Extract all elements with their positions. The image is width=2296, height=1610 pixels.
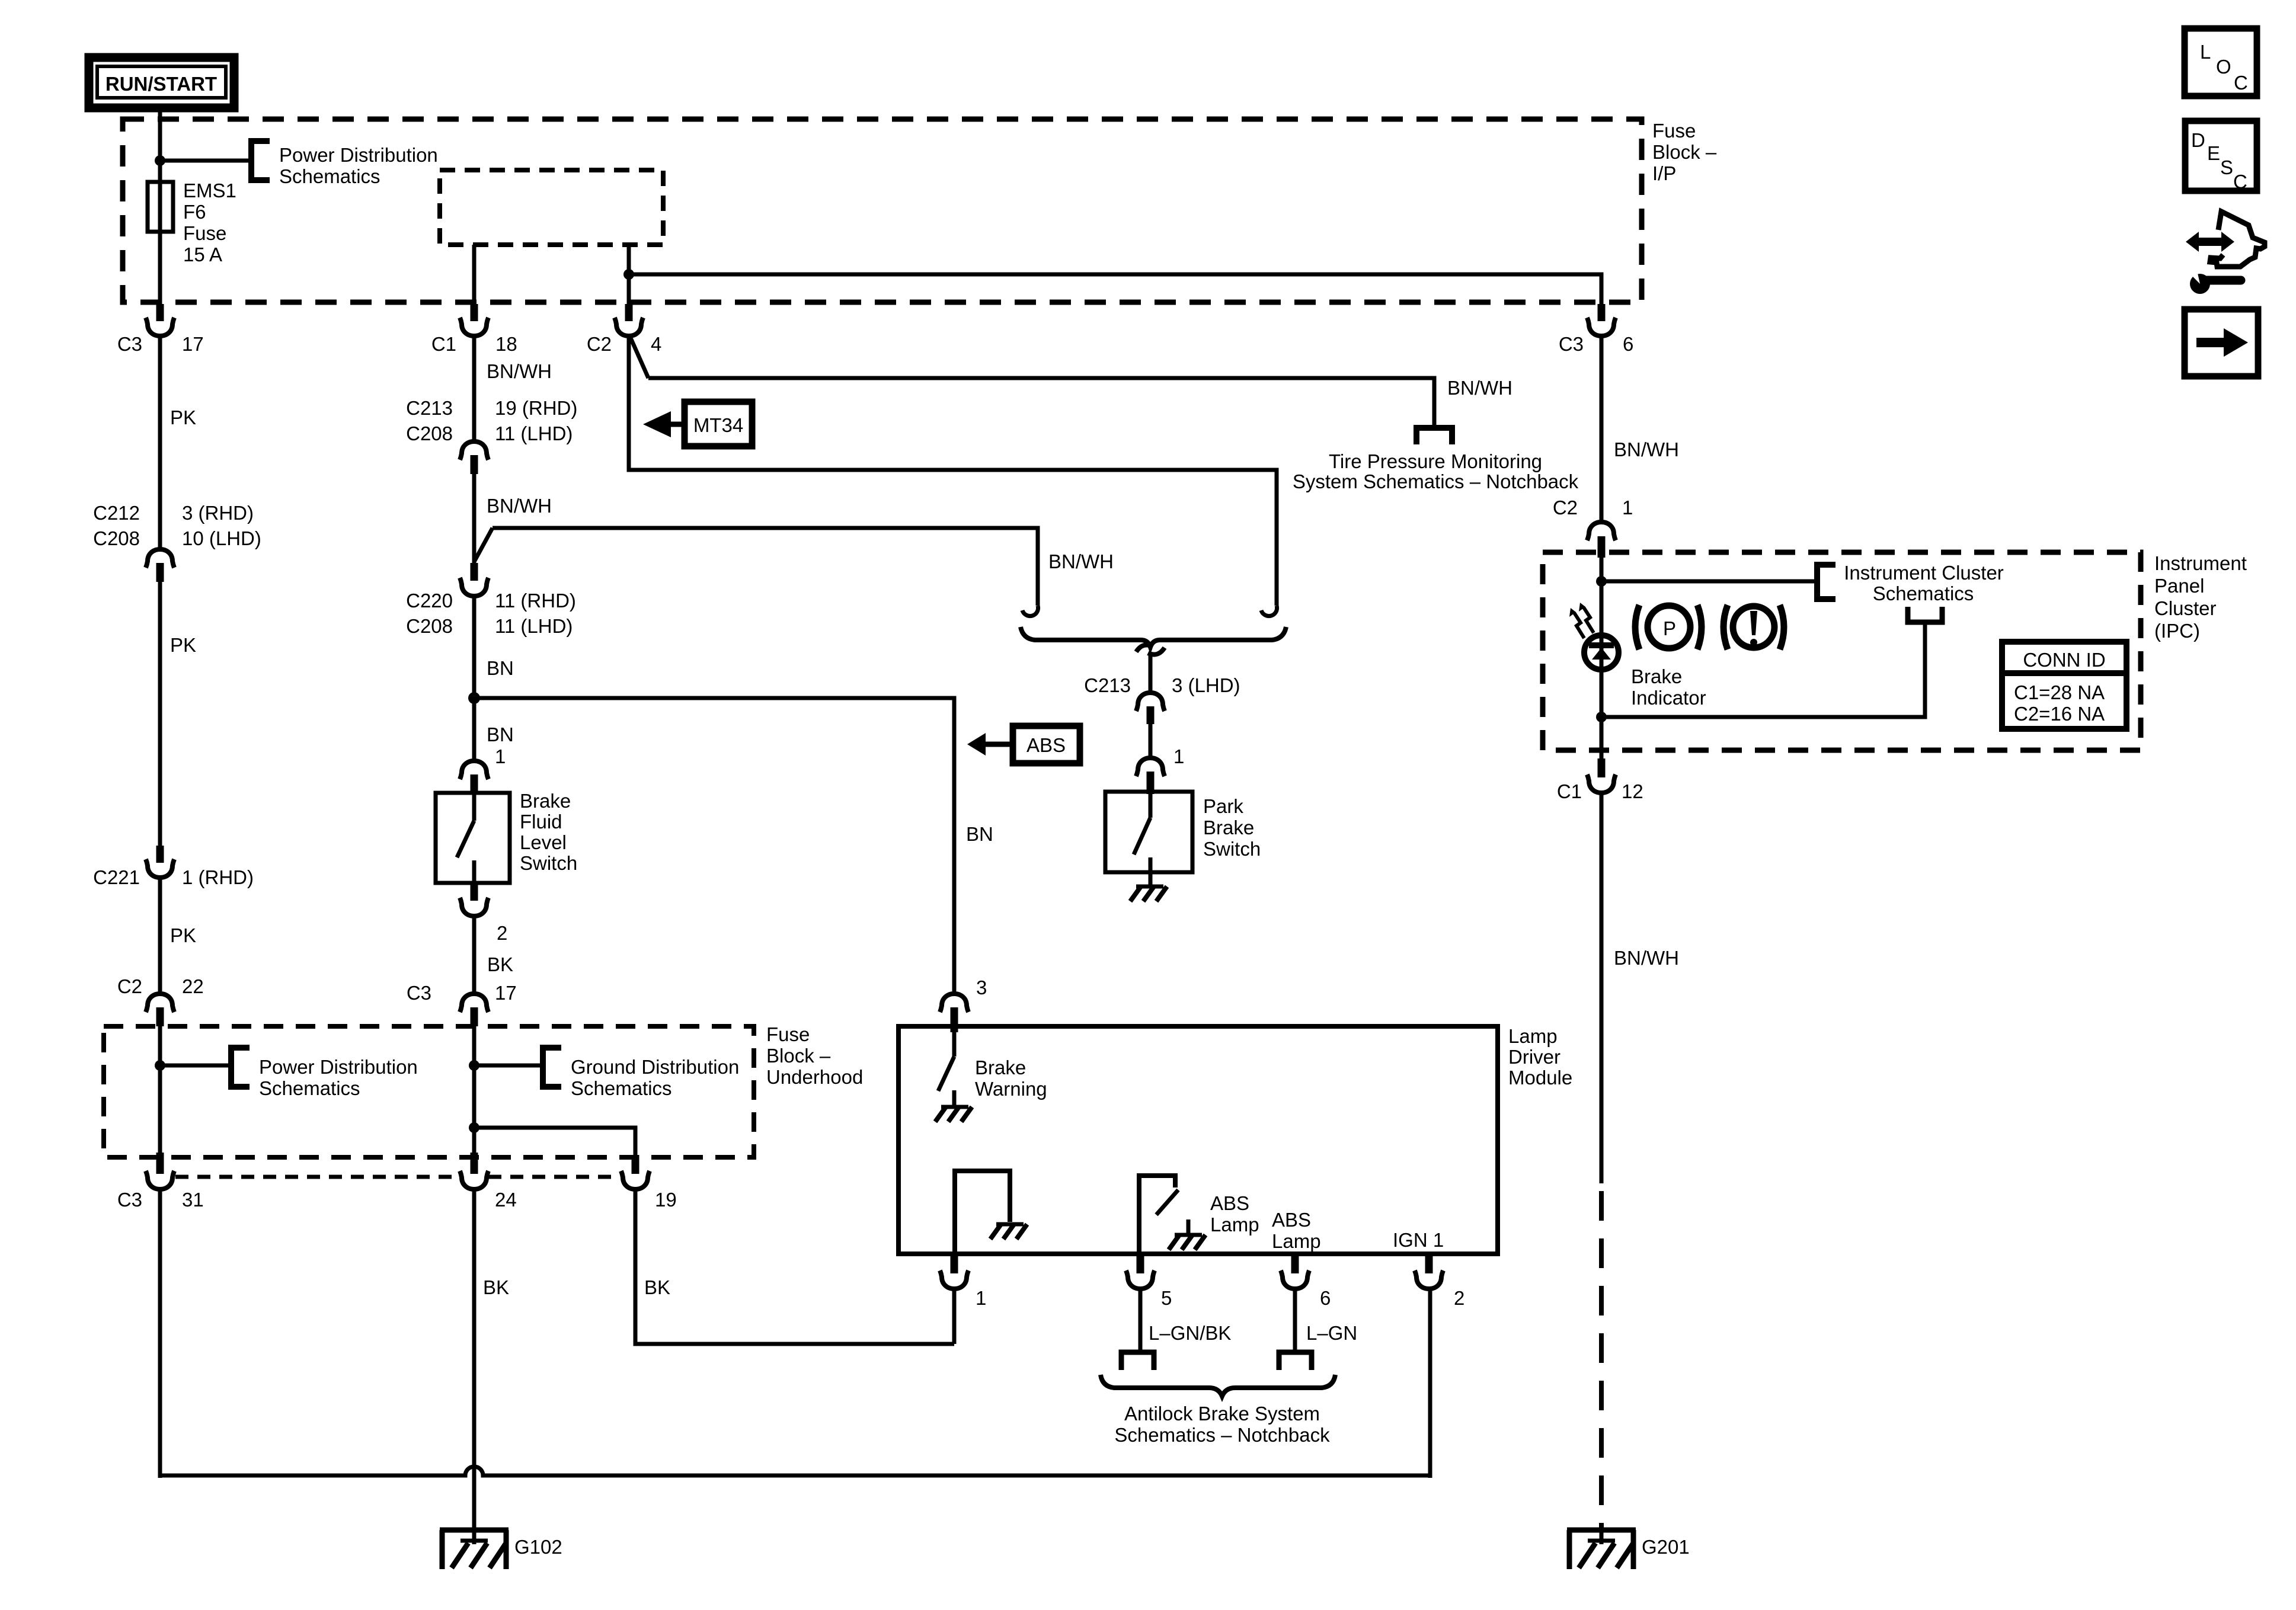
svg-text:Schematics – Notchback: Schematics – Notchback — [1114, 1424, 1330, 1446]
svg-text:Driver: Driver — [1508, 1046, 1560, 1068]
node: junction at power distribution tap — [155, 155, 165, 166]
label: Brake Fluid Level Switch — [520, 790, 577, 874]
svg-text:G102: G102 — [514, 1536, 562, 1558]
svg-text:5: 5 — [1161, 1287, 1172, 1309]
svg-text:E: E — [2207, 142, 2220, 164]
svg-text:MT34: MT34 — [693, 414, 743, 436]
svg-text:24: 24 — [495, 1189, 517, 1211]
svg-text:PK: PK — [170, 406, 196, 428]
wire PK: C221 down to C2-22 — [158, 877, 162, 993]
svg-text:Brake: Brake — [1631, 665, 1682, 687]
brake warning telltale icon ((!)) — [1723, 605, 1784, 649]
svg-text:1: 1 — [1173, 745, 1184, 767]
svg-text:Lamp: Lamp — [1508, 1025, 1558, 1047]
connector C3 pin 24 — [460, 1153, 517, 1211]
svg-text:C213: C213 — [406, 397, 453, 419]
svg-text:S: S — [2220, 156, 2233, 178]
Park Brake Switch box — [1105, 792, 1192, 872]
svg-text:6: 6 — [1320, 1287, 1331, 1309]
svg-text:19: 19 — [655, 1189, 677, 1211]
label: Power Distribution Schematics (underhood) — [259, 1056, 418, 1099]
wire: C2-4 slant branch to BN/WH feed — [630, 337, 648, 378]
svg-text:(IPC): (IPC) — [2154, 620, 2200, 642]
svg-text:C212: C212 — [93, 502, 140, 524]
svg-text:L–GN/BK: L–GN/BK — [1149, 1322, 1231, 1344]
wire: park brake switch to chassis ground — [1149, 872, 1153, 885]
svg-text:3: 3 — [976, 977, 987, 998]
wire: C213 down to C220 with branch slant — [472, 474, 477, 563]
label: ABS Lamp (pin 6) — [1272, 1209, 1321, 1252]
wire PK: C212 down to C221 — [158, 582, 162, 846]
label: Brake Warning — [975, 1057, 1047, 1100]
svg-text:Fuse: Fuse — [1652, 120, 1696, 142]
svg-text:Fluid: Fluid — [520, 811, 562, 833]
svg-text:Lamp: Lamp — [1272, 1230, 1321, 1252]
connector C3 pin 31 — [117, 1153, 204, 1211]
svg-text:L: L — [2200, 41, 2211, 63]
RUN/START switch box — [89, 57, 234, 108]
svg-text:10 (LHD): 10 (LHD) — [182, 527, 261, 549]
svg-text:Level: Level — [520, 831, 567, 853]
wire: BN branch junction to brake warning pin 3 — [474, 698, 954, 993]
svg-text:15 A: 15 A — [183, 244, 222, 265]
svg-text:Switch: Switch — [1203, 838, 1261, 860]
svg-text:Schematics: Schematics — [571, 1077, 672, 1099]
label: Tire Pressure Monitoring System Schematics - Notchback — [1293, 450, 1579, 492]
wire: C1-12 down (solid) — [1600, 792, 1604, 1183]
svg-text:Fuse: Fuse — [766, 1023, 810, 1045]
wire: inside underhood box down to C3-24 — [472, 1026, 477, 1153]
svg-text:C: C — [2233, 171, 2247, 193]
chassis ground (park brake switch) — [1130, 886, 1167, 901]
svg-text:11 (RHD): 11 (RHD) — [495, 590, 576, 612]
svg-text:PK: PK — [170, 924, 196, 946]
svg-text:C220: C220 — [406, 590, 453, 612]
switch blade inside BFLS — [457, 795, 474, 883]
svg-text:C1: C1 — [1557, 780, 1582, 802]
svg-text:3 (RHD): 3 (RHD) — [182, 502, 254, 524]
connector: LDM pin 2 (IGN 1) — [1415, 1254, 1464, 1309]
wire: junction to bracket — [1601, 580, 1816, 584]
svg-text:4: 4 — [651, 333, 661, 355]
wire: pin 6 down to ABS fork — [1293, 1288, 1297, 1350]
label: EMS1 F6 Fuse 15 A — [183, 180, 236, 265]
wire: C2-4 straight down then right to brace right drop — [629, 335, 1277, 606]
svg-text:RUN/START: RUN/START — [105, 73, 217, 95]
connector: LDM pin 5 — [1126, 1254, 1172, 1309]
chassis ground (brake warning) — [935, 1107, 972, 1122]
svg-text:BK: BK — [644, 1276, 670, 1298]
wire: brace output down to C213 — [1149, 654, 1153, 692]
svg-text:C2=16 NA: C2=16 NA — [2014, 703, 2105, 725]
connector: park brake switch pin 1 — [1136, 758, 1165, 794]
svg-text:17: 17 — [182, 333, 204, 355]
svg-text:Cluster: Cluster — [2154, 597, 2217, 619]
connector: BFLS pin 2 — [460, 883, 507, 944]
svg-text:BK: BK — [487, 953, 513, 975]
harness fork (pin 6) — [1279, 1352, 1312, 1370]
wire: RUN/START down to fuse — [158, 108, 162, 304]
svg-text:Block –: Block – — [1652, 141, 1717, 163]
svg-text:C2: C2 — [1553, 497, 1578, 518]
svg-text:1: 1 — [495, 745, 506, 767]
svg-text:Switch: Switch — [520, 852, 577, 874]
icon: DESC legend box — [2185, 121, 2257, 193]
wire: C3-6 down to C2-1 — [1600, 335, 1604, 523]
connector C3 pin 17 (underhood box) — [407, 982, 517, 1026]
svg-text:C1: C1 — [431, 333, 456, 355]
connector face dashed line (fine dashes) — [175, 1175, 619, 1179]
svg-text:C3: C3 — [1559, 333, 1584, 355]
wire: branch to connector 19 — [474, 1128, 635, 1155]
chassis ground (LDM internal) — [990, 1224, 1027, 1239]
wire: tap to power distribution bracket — [160, 159, 249, 163]
label: Ground Distribution Schematics — [571, 1056, 739, 1099]
connector C2 pin 22 — [117, 975, 204, 1026]
svg-text:BN/WH: BN/WH — [487, 495, 552, 517]
svg-text:CONN ID: CONN ID — [2023, 649, 2105, 671]
wire: BN/WH horizontal to TPM drop — [648, 378, 1434, 428]
wire: BFLS pin2 down to C3-17 underhood — [472, 916, 477, 993]
svg-text:19 (RHD): 19 (RHD) — [495, 397, 577, 419]
svg-text:C2: C2 — [117, 975, 142, 997]
svg-text:Ground Distribution: Ground Distribution — [571, 1056, 739, 1078]
off-page bracket: Ground Distribution — [543, 1048, 561, 1087]
connector C213 pin 3 (LHD) — [1084, 674, 1240, 724]
svg-text:BN/WH: BN/WH — [1048, 550, 1114, 572]
connector C2 pin 1 (IPC) — [1553, 497, 1633, 558]
inline connector (interlocked hooks) at brace output — [1136, 645, 1165, 654]
connector C3 pin 17 (fuse block output) — [117, 304, 204, 355]
wire: tap to ground distribution bracket — [474, 1064, 542, 1068]
Instrument Panel Cluster dashed box — [1543, 552, 2141, 750]
connector C213/C208 pin 19(RHD)/11(LHD) — [406, 397, 577, 474]
svg-text:1: 1 — [1622, 497, 1633, 518]
svg-text:Instrument: Instrument — [2154, 552, 2247, 574]
node: junction to connector 19 branch — [469, 1122, 479, 1133]
svg-text:2: 2 — [1454, 1287, 1464, 1309]
svg-text:Warning: Warning — [975, 1078, 1047, 1100]
svg-text:Brake: Brake — [520, 790, 571, 812]
svg-text:O: O — [2216, 56, 2231, 78]
connector C212/C208 pin 3(RHD)/10(LHD) — [93, 502, 261, 582]
svg-text:C208: C208 — [406, 615, 453, 637]
svg-text:BK: BK — [483, 1276, 509, 1298]
relay contact to pin 1 inside LDM — [955, 1171, 1010, 1254]
CONN ID table — [2002, 642, 2126, 729]
connector pin 19 (underhood) — [621, 1155, 677, 1211]
svg-text:6: 6 — [1623, 333, 1633, 355]
wire: C1-18 down to C213/C208 — [472, 335, 477, 441]
svg-text:Park: Park — [1203, 795, 1243, 817]
svg-text:Schematics: Schematics — [279, 165, 380, 187]
wire: C2-1 into IPC — [1600, 558, 1604, 639]
connector: LDM pin 6 — [1281, 1254, 1331, 1309]
svg-text:C3: C3 — [407, 982, 431, 1004]
svg-text:31: 31 — [182, 1189, 204, 1211]
svg-text:P: P — [1663, 617, 1676, 639]
svg-text:C213: C213 — [1084, 674, 1131, 696]
MT34 callout box with arrow — [643, 402, 752, 446]
svg-text:C2: C2 — [587, 333, 612, 355]
svg-text:F6: F6 — [183, 201, 206, 223]
brace: antilock brake system leads — [1101, 1375, 1335, 1396]
svg-text:12: 12 — [1622, 780, 1643, 802]
svg-text:BN: BN — [487, 724, 514, 745]
switch blade inside park brake switch — [1134, 794, 1150, 872]
svg-text:Indicator: Indicator — [1631, 687, 1706, 709]
wire: C1-18 from inner box down — [472, 245, 477, 304]
wire: pin 5 down to ABS fork — [1139, 1288, 1143, 1350]
wire: C213 to park brake switch pin 1 — [1149, 724, 1153, 758]
wire: pin 1 down to 19 branch — [952, 1288, 957, 1344]
wire: 19 down and right to LDM pin 1 — [635, 1189, 954, 1344]
svg-text:Brake: Brake — [975, 1057, 1026, 1078]
LED brake indicator symbol — [1569, 603, 1619, 673]
svg-text:ABS: ABS — [1027, 734, 1066, 756]
ground G201 symbol — [1567, 1530, 1690, 1569]
wire: slant branch to park brake feed — [474, 528, 493, 562]
svg-text:Panel: Panel — [2154, 575, 2204, 597]
Lamp Driver Module box — [898, 1026, 1498, 1254]
svg-text:1: 1 — [976, 1287, 986, 1309]
label: ABS Lamp (switch) — [1210, 1192, 1259, 1235]
label: Instrument Panel Cluster (IPC) — [2154, 552, 2247, 642]
svg-text:BN: BN — [487, 657, 514, 679]
node: junction below LED — [1596, 712, 1607, 722]
svg-text:Block –: Block – — [766, 1045, 831, 1067]
svg-text:Power Distribution: Power Distribution — [259, 1056, 418, 1078]
svg-text:C221: C221 — [93, 866, 140, 888]
svg-text:Antilock Brake System: Antilock Brake System — [1124, 1403, 1320, 1425]
Fuse Block - I/P dashed box — [123, 119, 1642, 302]
svg-text:C3: C3 — [117, 333, 142, 355]
harness connector fork to TPM — [1416, 428, 1452, 444]
svg-text:22: 22 — [182, 975, 204, 997]
connector C1 pin 12 — [1557, 758, 1643, 802]
wire: tap to power distribution bracket (underhood) — [160, 1064, 230, 1068]
chassis ground (ABS lamp switch) — [1169, 1235, 1205, 1250]
wire PK: C3-17 down to C212/C208 — [158, 335, 162, 548]
wire: C220 down to junction — [472, 596, 477, 760]
wire: LED to C1-12 — [1600, 664, 1604, 758]
node: junction on C2-4 wire to I/P bus — [623, 269, 634, 280]
node: junction at power distribution tap (underhood) — [155, 1060, 165, 1071]
connector C2 pin 4 — [587, 304, 662, 355]
svg-text:Lamp: Lamp — [1210, 1214, 1259, 1235]
node: junction to ground distribution bracket — [469, 1060, 479, 1071]
svg-text:Instrument Cluster: Instrument Cluster — [1844, 562, 2004, 584]
svg-text:11 (LHD): 11 (LHD) — [495, 422, 573, 444]
svg-text:11 (LHD): 11 (LHD) — [495, 615, 573, 637]
svg-text:ABS: ABS — [1210, 1192, 1249, 1214]
svg-text:1 (RHD): 1 (RHD) — [182, 866, 254, 888]
fuse EMS1 F6 15 A — [148, 182, 173, 232]
park brake telltale icon ((P)) — [1635, 605, 1702, 649]
svg-text:BN/WH: BN/WH — [1447, 377, 1512, 399]
svg-text:ABS: ABS — [1272, 1209, 1311, 1231]
svg-text:Module: Module — [1508, 1067, 1572, 1089]
wire: C2-4 from inner box down — [627, 245, 631, 304]
svg-text:L–GN: L–GN — [1306, 1322, 1357, 1344]
ABS callout box with arrow — [967, 726, 1080, 763]
Fuse Block - Underhood dashed box — [104, 1026, 754, 1157]
label: Lamp Driver Module — [1508, 1025, 1572, 1089]
svg-text:3 (LHD): 3 (LHD) — [1172, 674, 1240, 696]
off-page bracket: Instrument Cluster — [1817, 565, 1835, 599]
svg-text:BN/WH: BN/WH — [487, 360, 552, 382]
wire: BN/WH horizontal to brace left drop — [493, 528, 1038, 606]
svg-text:C: C — [2234, 72, 2248, 94]
harness fork (pin 5) — [1121, 1352, 1154, 1370]
label: Brake Indicator — [1631, 665, 1706, 709]
wire: bottom bus C3-31 to IGN1 pin 2 (hop over G102 wire) — [160, 1467, 1430, 1475]
connector: BFLS pin 1 — [460, 761, 488, 795]
svg-text:Fuse: Fuse — [183, 222, 226, 244]
svg-text:Power Distribution: Power Distribution — [279, 144, 438, 166]
Fuse Block - I/P label — [1652, 120, 1717, 184]
connector C221 pin 1 (RHD) — [93, 846, 254, 888]
svg-text:Schematics: Schematics — [1873, 582, 1974, 604]
icon: service/repair car symbol — [2186, 212, 2265, 294]
svg-text:BN/WH: BN/WH — [1614, 438, 1679, 460]
connector C3 pin 6 — [1559, 304, 1634, 355]
svg-text:G201: G201 — [1642, 1536, 1690, 1558]
svg-text:C1=28 NA: C1=28 NA — [2014, 681, 2105, 703]
ground G102 symbol — [440, 1530, 562, 1569]
svg-text:Underhood: Underhood — [766, 1066, 863, 1088]
svg-text:18: 18 — [495, 333, 517, 355]
svg-text:C208: C208 — [406, 422, 453, 444]
connector C220/C208 pin 11/11 — [406, 563, 576, 637]
svg-text:Schematics: Schematics — [259, 1077, 360, 1099]
svg-text:Brake: Brake — [1203, 817, 1254, 838]
svg-text:I/P: I/P — [1652, 162, 1676, 184]
wire: C3-24 down to ground G102 — [472, 1189, 477, 1544]
harness fork (instrument cluster return) — [1908, 607, 1942, 622]
off-page bracket: Power Distribution (top) — [251, 141, 270, 180]
svg-text:C208: C208 — [93, 527, 140, 549]
Brake Fluid Level Switch box — [436, 793, 510, 883]
svg-text:D: D — [2191, 129, 2205, 151]
connector: LDM pin 3 — [940, 994, 968, 1032]
wire end hook (left brace lead) — [1022, 606, 1038, 616]
off-page bracket: Power Distribution (underhood) — [231, 1048, 250, 1087]
svg-text:Tire Pressure Monitoring: Tire Pressure Monitoring — [1329, 450, 1542, 472]
svg-text:PK: PK — [170, 634, 196, 656]
svg-text:EMS1: EMS1 — [183, 180, 236, 201]
wire: fork stem down and left to LED cathode — [1601, 622, 1925, 717]
wire: dashed continuation to G201 — [1599, 1191, 1604, 1530]
svg-text:BN/WH: BN/WH — [1614, 947, 1679, 969]
label: Instrument Cluster Schematics — [1844, 562, 2004, 604]
wire end hook (right brace lead) — [1261, 606, 1277, 616]
connector: LDM pin 1 — [940, 1254, 986, 1309]
svg-text:17: 17 — [495, 982, 517, 1004]
node: BN junction to lamp driver module — [468, 692, 480, 704]
svg-text:BN: BN — [966, 823, 993, 845]
icon: forward arrow box — [2185, 309, 2258, 376]
wire: C3-31 down to bottom bus — [158, 1189, 162, 1478]
svg-text:C3: C3 — [117, 1189, 142, 1211]
icon: LOC legend box — [2185, 28, 2257, 96]
brake warning switch inside LDM — [938, 1032, 954, 1106]
wire: C2-22 down into underhood fuse block — [158, 1026, 162, 1153]
wire: I/P internal bus to C3-6 — [629, 274, 1601, 304]
connector C1 pin 18 — [431, 304, 517, 355]
ABS lamp switch inside LDM — [1139, 1176, 1188, 1254]
label: Fuse Block - Underhood — [766, 1023, 863, 1088]
brace joining BN/WH leads — [1021, 627, 1286, 647]
svg-text:2: 2 — [497, 922, 507, 944]
svg-text:IGN 1: IGN 1 — [1393, 1229, 1444, 1251]
wire: pin 2 down to bottom bus — [1428, 1288, 1432, 1478]
svg-text:System Schematics – Notchback: System Schematics – Notchback — [1293, 470, 1579, 492]
inner dashed box (fuse block internal) — [440, 170, 663, 245]
node: junction to instrument cluster bracket — [1596, 576, 1607, 587]
label: Park Brake Switch — [1203, 795, 1261, 860]
label: Antilock Brake System Schematics - Notchback — [1114, 1403, 1330, 1446]
label: Power Distribution Schematics (top) — [279, 144, 438, 187]
